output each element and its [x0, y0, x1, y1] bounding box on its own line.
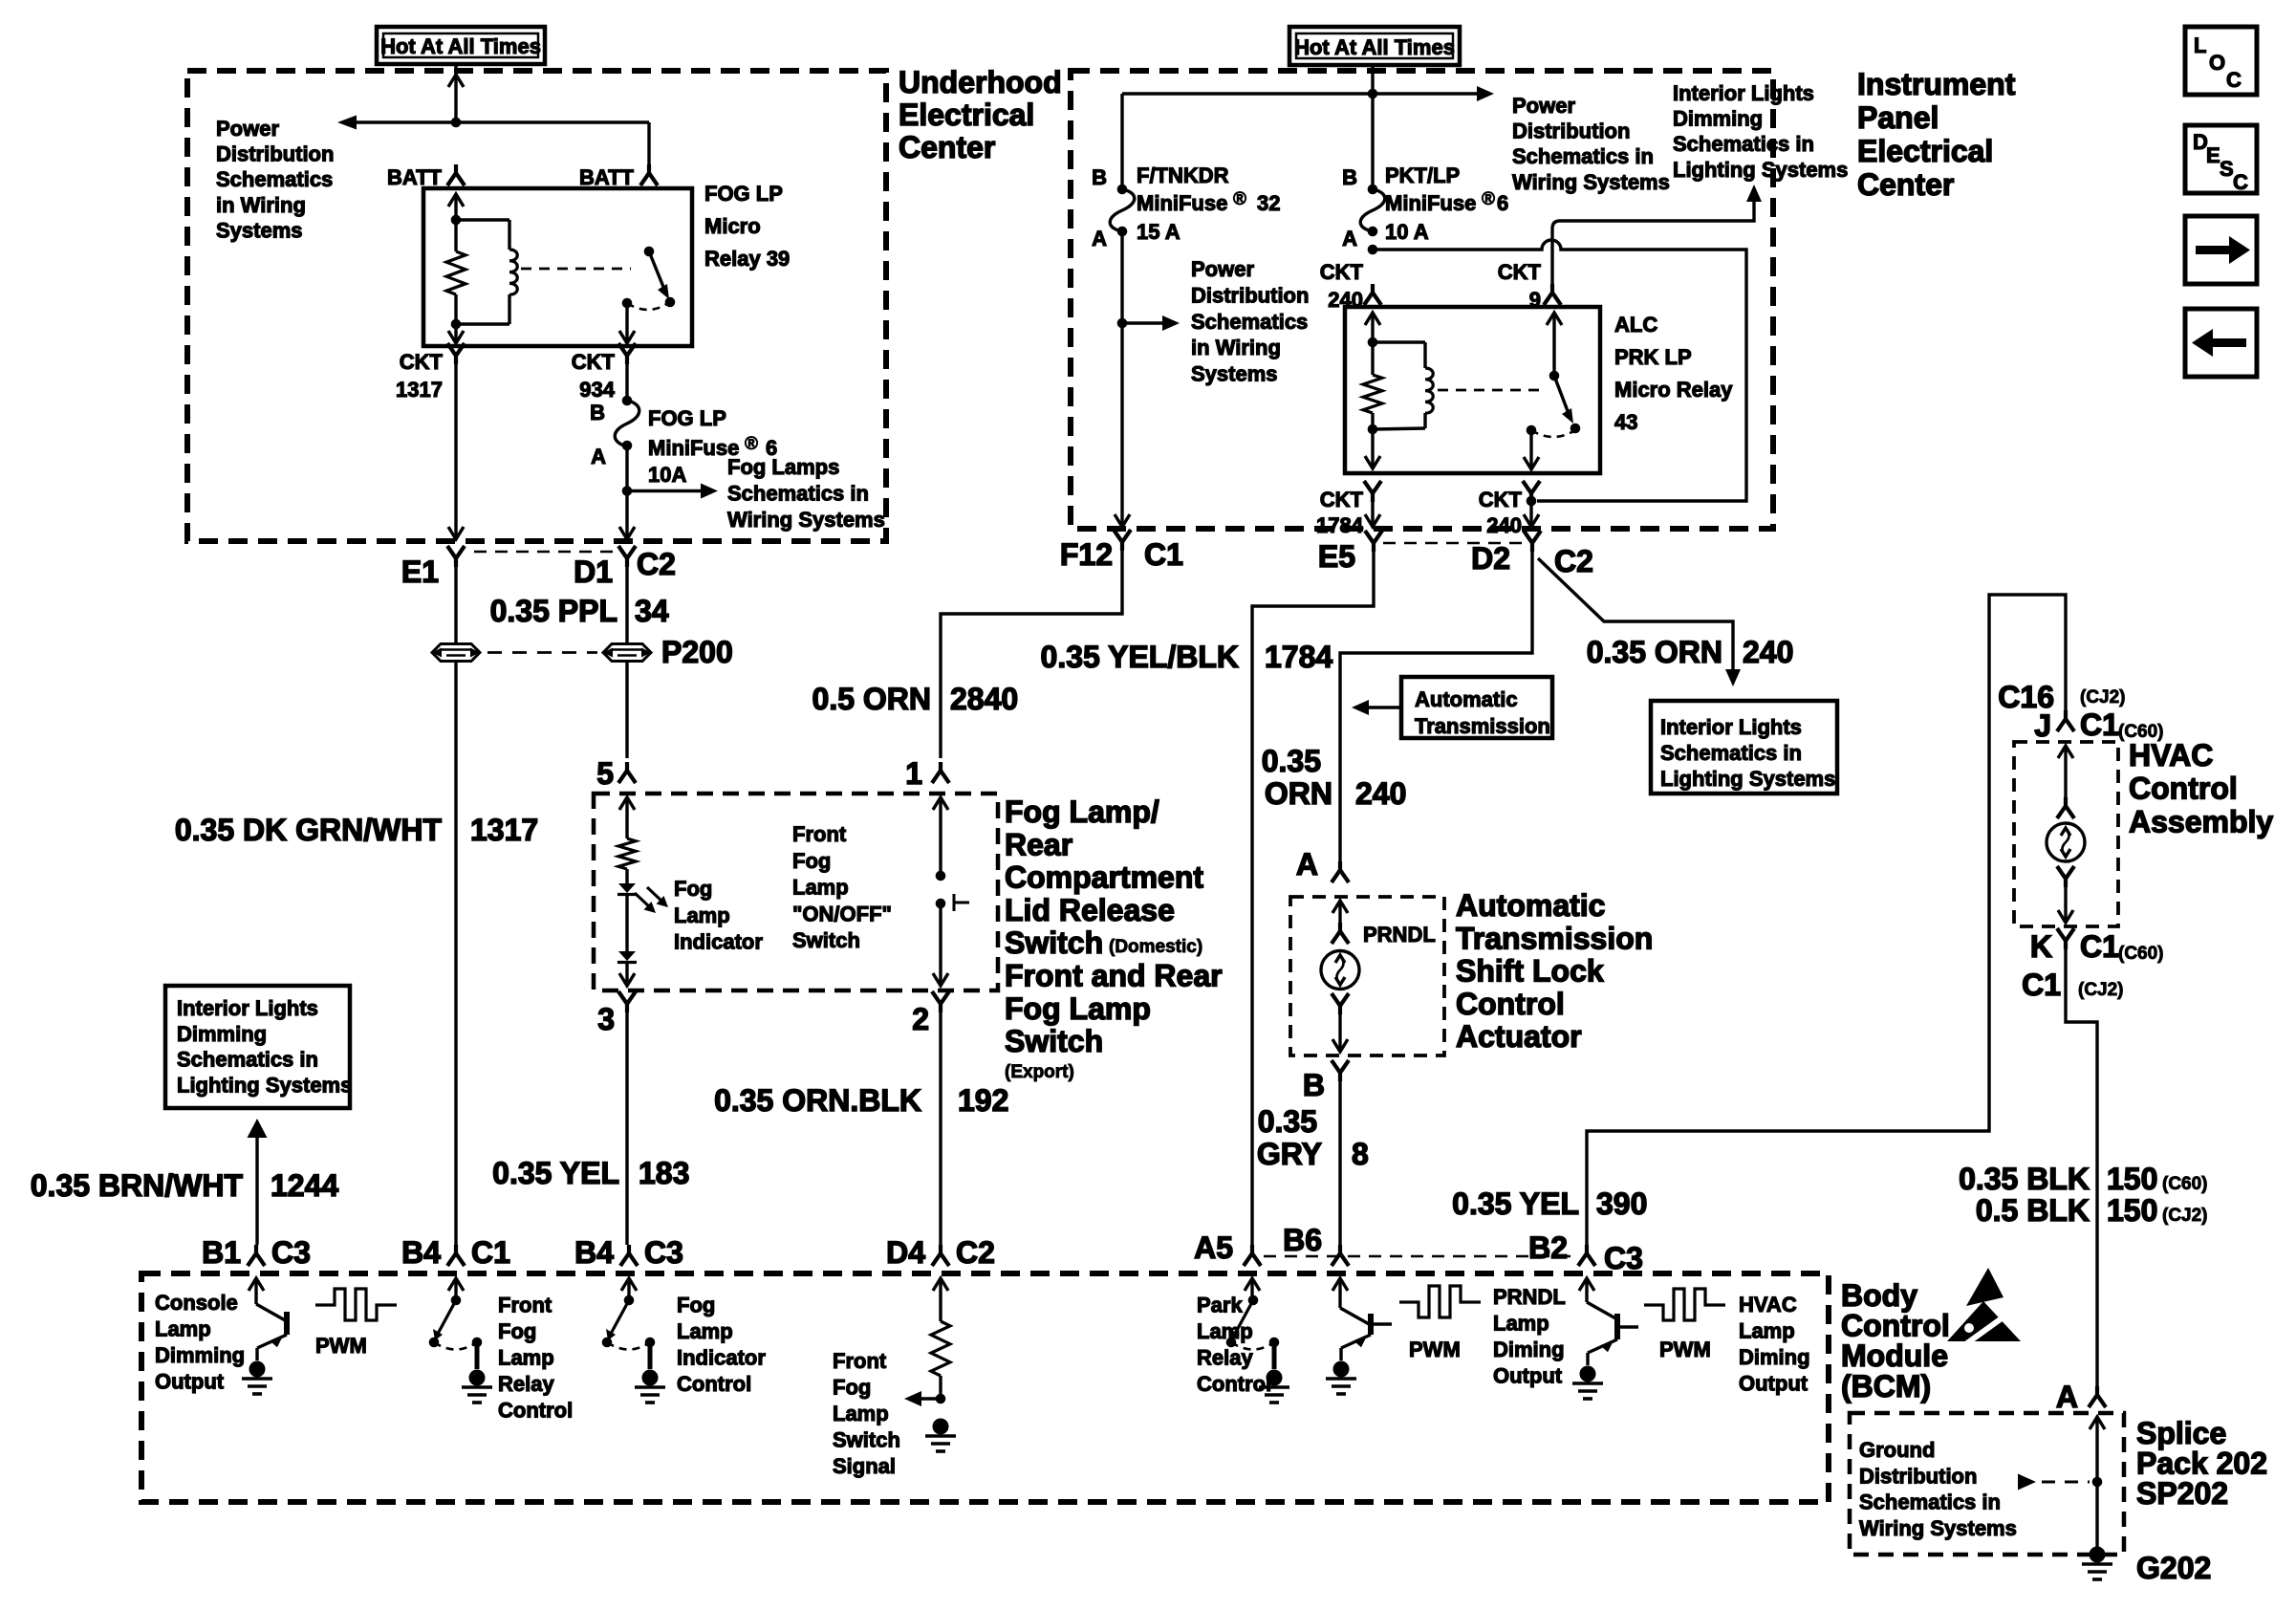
svg-text:Pack 202: Pack 202: [2136, 1447, 2267, 1481]
svg-text:Center: Center: [899, 130, 995, 164]
pass-through P200 (right): [603, 644, 651, 662]
svg-text:C: C: [2226, 68, 2242, 92]
svg-text:Schematics in: Schematics in: [727, 482, 869, 506]
svg-text:Fog: Fog: [674, 877, 712, 901]
svg-text:A: A: [2056, 1380, 2078, 1414]
svg-text:C: C: [2233, 170, 2248, 194]
svg-text:Switch: Switch: [792, 928, 860, 952]
lamp HVAC: [2047, 823, 2085, 861]
svg-text:Fog Lamps: Fog Lamps: [727, 455, 839, 479]
relay 39 coil-side pin arrow: [448, 194, 464, 207]
fog switch pin1 arrow: [933, 797, 948, 810]
svg-text:Assembly: Assembly: [2129, 804, 2273, 838]
svg-text:E5: E5: [1318, 539, 1355, 574]
svg-text:(CJ2): (CJ2): [2080, 687, 2126, 707]
wire from Hot box down: [1371, 65, 1374, 189]
svg-text:PWM: PWM: [315, 1334, 367, 1358]
fog lamp indicator pin arrow: [619, 797, 635, 810]
svg-text:A: A: [1342, 227, 1357, 250]
Underhood Electrical Center dashed box: [187, 71, 886, 541]
svg-text:FOG LP: FOG LP: [648, 406, 726, 430]
svg-text:0.5 ORN: 0.5 ORN: [812, 682, 931, 716]
svg-text:0.35 ORN.BLK: 0.35 ORN.BLK: [714, 1083, 921, 1118]
svg-text:C1: C1: [2022, 968, 2061, 1002]
svg-text:C2: C2: [637, 547, 676, 581]
svg-text:240: 240: [1743, 635, 1793, 669]
svg-text:Distribution: Distribution: [1859, 1464, 1977, 1488]
relay39 coil: [456, 218, 509, 221]
ESD warning symbol: [1966, 1268, 2004, 1306]
wire D2 to PRNDL actuator: [1340, 552, 1532, 863]
wire F12 to fog switch pin1: [941, 551, 1122, 758]
svg-text:Schematics: Schematics: [1191, 310, 1308, 334]
relay43 actuation dashed link: [1438, 389, 1541, 392]
svg-text:1784: 1784: [1265, 640, 1332, 674]
svg-text:10A: 10A: [648, 463, 686, 487]
svg-text:Front: Front: [792, 822, 847, 846]
svg-text:MiniFuse: MiniFuse: [1385, 191, 1476, 215]
P200 link dashed: [487, 651, 597, 654]
wire E1 to P200: [454, 567, 457, 643]
svg-text:Distribution: Distribution: [1512, 120, 1630, 143]
svg-text:"ON/OFF": "ON/OFF": [792, 902, 892, 925]
svg-text:Schematics in: Schematics in: [1859, 1490, 2001, 1514]
svg-text:PRNDL: PRNDL: [1493, 1285, 1566, 1309]
LED diode 1: [618, 883, 636, 893]
svg-text:B2: B2: [1528, 1230, 1568, 1265]
svg-text:Actuator: Actuator: [1456, 1019, 1582, 1054]
svg-text:B1: B1: [202, 1235, 241, 1270]
svg-text:Lamp: Lamp: [498, 1346, 554, 1370]
power label box "Hot At All Times" (left): [377, 27, 545, 64]
Instrument Panel Electrical Center dashed box: [1071, 71, 1773, 529]
svg-text:Distribution: Distribution: [1191, 283, 1309, 307]
svg-text:A5: A5: [1194, 1230, 1233, 1265]
relay43 coil pin arrow: [1365, 313, 1380, 325]
fog lamp indicator switch: [627, 1278, 630, 1300]
svg-text:C1: C1: [1144, 537, 1183, 572]
svg-text:Control: Control: [1841, 1309, 1950, 1343]
feed wire to F/TNKDR fuse: [1122, 92, 1373, 95]
svg-text:Schematics: Schematics: [216, 167, 333, 191]
wire K down to splice: [2066, 949, 2097, 1388]
svg-text:G202: G202: [2136, 1551, 2211, 1585]
relay43 switch common pin: [1552, 313, 1555, 376]
lamp PRNDL: [1321, 951, 1359, 990]
wire E5 to BCM A5: [1252, 552, 1374, 1245]
resistor relay39 internal: [454, 220, 457, 251]
svg-text:F/TNKDR: F/TNKDR: [1137, 163, 1229, 187]
console lamp transistor: [254, 1278, 257, 1304]
svg-text:C1: C1: [2080, 929, 2119, 964]
svg-text:GRY: GRY: [1257, 1137, 1322, 1171]
node CKT240 branch: [1368, 245, 1377, 254]
Fog Lamp switch dashed box: [594, 794, 998, 990]
wire pin3 to BCM: [625, 1012, 628, 1245]
svg-text:Relay: Relay: [1197, 1346, 1253, 1370]
wire B to BCM B6: [1338, 1081, 1341, 1245]
svg-text:Lighting Systems: Lighting Systems: [1660, 767, 1835, 791]
svg-text:O: O: [2209, 51, 2225, 75]
svg-text:MiniFuse: MiniFuse: [648, 436, 739, 460]
svg-text:Output: Output: [155, 1370, 225, 1394]
svg-text:Automatic: Automatic: [1456, 888, 1605, 923]
svg-text:C1: C1: [2080, 707, 2119, 742]
svg-text:Fog: Fog: [833, 1376, 871, 1400]
wire 1317 long down to BCM B4: [454, 662, 457, 1245]
svg-text:Schematics in: Schematics in: [177, 1048, 318, 1072]
node feed join: [1527, 496, 1536, 506]
svg-text:S: S: [2220, 157, 2234, 181]
svg-text:BATT: BATT: [579, 165, 635, 189]
svg-text:0.35 ORN: 0.35 ORN: [1587, 635, 1722, 669]
svg-text:0.5 BLK: 0.5 BLK: [1976, 1193, 2090, 1228]
svg-text:0.35 BRN/WHT: 0.35 BRN/WHT: [31, 1168, 244, 1203]
node power branch: [1368, 89, 1377, 98]
svg-text:CKT: CKT: [400, 350, 444, 374]
svg-text:A: A: [1296, 847, 1318, 881]
svg-text:B: B: [1092, 165, 1107, 189]
node: [1368, 424, 1377, 434]
node coil top: [451, 215, 461, 225]
svg-text:Front and Rear: Front and Rear: [1005, 959, 1223, 993]
svg-text:Rear: Rear: [1005, 827, 1072, 861]
svg-text:in Wiring: in Wiring: [1191, 336, 1281, 359]
svg-text:Signal: Signal: [833, 1454, 896, 1478]
svg-text:Lid Release: Lid Release: [1005, 893, 1175, 927]
svg-text:(Export): (Export): [1005, 1062, 1074, 1082]
Body Control Module dashed box: [141, 1273, 1829, 1502]
svg-text:(C60): (C60): [2162, 1174, 2208, 1194]
arrow from Automatic Transmission box: [1369, 706, 1401, 708]
svg-text:D2: D2: [1471, 541, 1510, 576]
node fog lamps branch: [622, 487, 632, 496]
svg-text:Front: Front: [498, 1294, 552, 1317]
HVAC pin arrow: [2058, 746, 2073, 758]
switch contacts: [936, 871, 945, 881]
nav box LOC: [2185, 27, 2257, 95]
svg-text:Lamp: Lamp: [674, 903, 730, 927]
wire from Hot At All Times into box: [454, 64, 457, 122]
svg-text:CKT: CKT: [1498, 260, 1542, 284]
svg-text:Fog Lamp: Fog Lamp: [1005, 991, 1151, 1026]
svg-text:2: 2: [912, 1002, 929, 1036]
svg-text:Panel: Panel: [1857, 100, 1939, 135]
svg-text:Distribution: Distribution: [216, 142, 334, 166]
svg-text:E1: E1: [401, 555, 439, 589]
relay39 switch: [644, 247, 654, 256]
svg-text:(Domestic): (Domestic): [1109, 937, 1202, 957]
svg-text:Diming: Diming: [1739, 1345, 1810, 1369]
svg-text:Instrument: Instrument: [1857, 67, 2016, 101]
svg-text:K: K: [2030, 929, 2052, 964]
svg-text:6: 6: [1497, 191, 1508, 215]
svg-text:®: ®: [745, 434, 758, 454]
svg-text:1317: 1317: [470, 813, 538, 847]
svg-text:1: 1: [905, 756, 922, 791]
resistor fog lamp indicator: [618, 838, 636, 869]
svg-text:Relay: Relay: [498, 1372, 554, 1396]
inner connector lower: [1332, 993, 1349, 1014]
svg-text:Electrical: Electrical: [899, 98, 1034, 132]
arrow to Power Distribution schematics: [1122, 321, 1162, 324]
svg-text:Output: Output: [1493, 1364, 1563, 1388]
connector line A5-B2: [1264, 1255, 1575, 1258]
svg-text:Transmission: Transmission: [1415, 714, 1550, 738]
relay43 pin out arrow: [1371, 429, 1374, 466]
svg-text:PWM: PWM: [1409, 1338, 1461, 1361]
svg-text:B: B: [590, 401, 605, 424]
wire below fuse: [625, 446, 628, 537]
svg-text:(CJ2): (CJ2): [2078, 980, 2124, 1000]
wire 183 from P200 to fog switch pin5: [625, 662, 628, 758]
svg-text:Dimming: Dimming: [1673, 107, 1763, 131]
svg-text:0.35 YEL: 0.35 YEL: [1452, 1186, 1579, 1221]
svg-text:Lamp: Lamp: [155, 1317, 211, 1341]
svg-text:1784: 1784: [1316, 513, 1364, 537]
nav box forward arrow: [2185, 216, 2257, 284]
wire D2 to interior lights arrow: [1538, 558, 1733, 669]
svg-text:in Wiring: in Wiring: [216, 193, 306, 217]
fuse FOG LP MiniFuse 6 10A: [622, 396, 632, 405]
svg-text:(BCM): (BCM): [1841, 1369, 1931, 1403]
connector line E5-D2: [1383, 542, 1522, 545]
node coil bottom: [451, 319, 461, 329]
svg-text:Center: Center: [1857, 167, 1954, 202]
svg-text:J: J: [2034, 708, 2051, 743]
svg-text:PRK LP: PRK LP: [1614, 345, 1692, 369]
svg-text:(CJ2): (CJ2): [2162, 1206, 2208, 1226]
PRNDL pin arrow: [1332, 901, 1348, 913]
LED diode 2: [618, 951, 636, 961]
svg-text:(C60): (C60): [2118, 944, 2164, 964]
svg-text:C3: C3: [271, 1235, 311, 1270]
relay43 coil: [1373, 340, 1425, 343]
svg-text:B4: B4: [574, 1235, 614, 1270]
splice branch arrow: [2018, 1474, 2036, 1490]
Automatic Transmission Shift Lock Control Actuator dashed box: [1290, 897, 1444, 1055]
nav box back arrow: [2185, 309, 2257, 377]
pass-through P200 (left): [432, 644, 480, 662]
svg-text:Lamp: Lamp: [1493, 1312, 1549, 1336]
power label box "Hot At All Times" (right): [1289, 27, 1460, 65]
relay U: FOG LP Micro Relay 39 box: [423, 188, 692, 346]
svg-text:Lighting Systems: Lighting Systems: [1673, 158, 1848, 182]
svg-text:ORN: ORN: [1265, 776, 1332, 811]
svg-text:1317: 1317: [396, 378, 443, 402]
svg-text:Switch: Switch: [1005, 925, 1103, 960]
svg-text:A: A: [591, 445, 606, 468]
svg-text:B6: B6: [1283, 1223, 1322, 1257]
HVAC dimming transistor: [1585, 1278, 1588, 1302]
svg-text:C2: C2: [956, 1235, 995, 1270]
svg-text:Console: Console: [155, 1291, 238, 1315]
svg-text:192: 192: [958, 1083, 1008, 1118]
svg-text:BATT: BATT: [387, 165, 443, 189]
svg-text:Compartment: Compartment: [1005, 860, 1203, 895]
svg-text:A: A: [1092, 227, 1107, 250]
svg-text:Indicator: Indicator: [674, 930, 763, 954]
svg-text:Fog: Fog: [792, 849, 831, 873]
svg-text:Indicator: Indicator: [677, 1346, 766, 1370]
svg-text:Micro: Micro: [704, 214, 761, 238]
svg-text:Interior Lights: Interior Lights: [1673, 81, 1814, 105]
callout box Interior Lights Dimming Schematics: [165, 986, 350, 1108]
svg-text:L: L: [2194, 33, 2206, 57]
BCM pin arrows: [249, 1278, 264, 1291]
svg-text:F12: F12: [1060, 537, 1113, 572]
svg-text:150: 150: [2107, 1193, 2157, 1228]
svg-text:®: ®: [1233, 189, 1246, 209]
svg-text:390: 390: [1596, 1186, 1647, 1221]
svg-text:Micro Relay: Micro Relay: [1614, 378, 1733, 402]
feed wire with hop to interior lights circuit: [1373, 240, 1746, 501]
svg-text:0.35: 0.35: [1258, 1104, 1317, 1139]
svg-text:Lamp: Lamp: [1197, 1319, 1253, 1343]
svg-text:Fog: Fog: [498, 1319, 536, 1343]
svg-text:C3: C3: [644, 1235, 683, 1270]
relay39 actuation dashed link: [521, 268, 631, 271]
nav box DESC: [2185, 125, 2257, 193]
PRNDL dimming transistor: [1338, 1278, 1341, 1308]
svg-text:B: B: [1342, 165, 1357, 189]
relay43 switch: [1549, 371, 1559, 381]
svg-text:Control: Control: [677, 1372, 751, 1396]
svg-text:150: 150: [2107, 1162, 2157, 1196]
svg-text:Shift Lock: Shift Lock: [1456, 954, 1604, 989]
svg-text:Wiring Systems: Wiring Systems: [1859, 1516, 2017, 1540]
svg-text:FOG LP: FOG LP: [704, 182, 783, 206]
svg-text:Dimming: Dimming: [155, 1343, 245, 1367]
svg-text:934: 934: [579, 378, 615, 402]
svg-text:®: ®: [1482, 189, 1495, 209]
svg-text:B: B: [1303, 1068, 1325, 1102]
svg-text:C3: C3: [1604, 1241, 1643, 1275]
svg-text:Systems: Systems: [1191, 362, 1278, 386]
svg-text:0.35 YEL: 0.35 YEL: [492, 1156, 619, 1190]
arrow to Fog Lamps schematics: [627, 490, 701, 492]
svg-text:Dimming: Dimming: [177, 1022, 267, 1046]
PWM waveform 2: [1399, 1286, 1481, 1317]
svg-text:CKT: CKT: [572, 350, 616, 374]
svg-text:Schematics in: Schematics in: [1512, 144, 1654, 168]
front fog lamp switch signal resistor: [939, 1278, 942, 1321]
svg-text:D1: D1: [574, 555, 613, 589]
park lamp relay switch: [1250, 1278, 1253, 1300]
svg-text:Switch: Switch: [1005, 1024, 1103, 1058]
svg-text:HVAC: HVAC: [1739, 1293, 1797, 1316]
resistor relay43: [1371, 342, 1374, 375]
svg-text:Switch: Switch: [833, 1428, 900, 1452]
svg-text:Power: Power: [216, 117, 279, 141]
CKT 9 wire with arrow to Lighting Systems: [1552, 192, 1754, 295]
relay U: ALC PRK LP Micro Relay 43 box: [1345, 307, 1600, 473]
svg-text:10 A: 10 A: [1385, 220, 1429, 244]
wire F12 down: [1120, 231, 1123, 524]
wire down to BATT 2: [647, 122, 650, 164]
svg-text:Lamp: Lamp: [833, 1402, 889, 1425]
svg-text:Interior Lights: Interior Lights: [1660, 715, 1802, 739]
svg-text:2840: 2840: [950, 682, 1018, 716]
svg-text:B4: B4: [401, 1235, 441, 1270]
wire to Power Distribution (left arrow): [354, 120, 649, 123]
svg-text:Splice: Splice: [2136, 1416, 2226, 1450]
inner connector: [1332, 923, 1349, 944]
svg-text:CKT: CKT: [1320, 488, 1364, 511]
svg-text:ALC: ALC: [1614, 313, 1657, 337]
svg-text:Ground: Ground: [1859, 1438, 1935, 1462]
node power dist branch: [1117, 318, 1127, 328]
svg-text:PKT/LP: PKT/LP: [1385, 163, 1460, 187]
wire BCM B2 to HVAC C16: [1587, 595, 2066, 1246]
svg-text:CKT: CKT: [1320, 260, 1364, 284]
svg-text:0.35 PPL: 0.35 PPL: [490, 594, 617, 628]
svg-text:Fog Lamp/: Fog Lamp/: [1005, 794, 1159, 829]
splice pin arrow: [2090, 1417, 2105, 1429]
wire pin2 to BCM D4: [939, 1012, 942, 1245]
svg-text:Hot At All Times: Hot At All Times: [1294, 35, 1455, 59]
arrow wire up to interior lights box: [248, 1119, 268, 1138]
svg-text:Front: Front: [833, 1349, 887, 1373]
svg-text:CKT: CKT: [1479, 488, 1523, 511]
svg-text:SP202: SP202: [2136, 1476, 2228, 1511]
svg-text:Hot At All Times: Hot At All Times: [380, 34, 541, 58]
svg-text:HVAC: HVAC: [2129, 738, 2213, 772]
svg-text:Module: Module: [1841, 1338, 1948, 1373]
svg-text:Interior Lights: Interior Lights: [177, 996, 318, 1020]
front fog lamp relay switch: [454, 1278, 457, 1300]
svg-text:240: 240: [1355, 776, 1406, 811]
svg-text:183: 183: [639, 1156, 689, 1190]
svg-text:Power: Power: [1512, 94, 1575, 118]
ground G202: [2090, 1547, 2105, 1562]
svg-text:8: 8: [1352, 1137, 1369, 1171]
svg-text:Lamp: Lamp: [1739, 1319, 1795, 1343]
node: [1368, 337, 1377, 347]
wire D1 to P200: [625, 567, 628, 643]
svg-text:0.35: 0.35: [1262, 744, 1321, 778]
svg-text:Lamp: Lamp: [677, 1319, 733, 1343]
push button symbol: [953, 894, 956, 911]
svg-text:D4: D4: [886, 1235, 925, 1270]
HVAC Control Assembly dashed box: [2014, 742, 2118, 926]
svg-text:Transmission: Transmission: [1456, 921, 1653, 955]
node junction at BATT feed: [451, 118, 461, 127]
svg-text:Control: Control: [2129, 772, 2238, 806]
svg-text:Automatic: Automatic: [1415, 687, 1518, 711]
svg-text:PRNDL: PRNDL: [1363, 923, 1436, 946]
svg-text:Wiring Systems: Wiring Systems: [727, 508, 885, 532]
connector line E1-D1: [474, 551, 617, 554]
svg-text:E: E: [2206, 143, 2220, 167]
svg-text:Lighting Systems: Lighting Systems: [177, 1073, 352, 1097]
svg-text:Diming: Diming: [1493, 1338, 1565, 1361]
svg-text:Control: Control: [1197, 1372, 1271, 1396]
Splice Pack dashed box: [1850, 1413, 2124, 1555]
svg-text:MiniFuse: MiniFuse: [1137, 191, 1227, 215]
arrow to Power Distribution (right): [1373, 92, 1477, 95]
svg-text:0.35 DK GRN/WHT: 0.35 DK GRN/WHT: [175, 813, 443, 847]
svg-text:Underhood: Underhood: [899, 65, 1062, 99]
svg-text:Schematics in: Schematics in: [1673, 132, 1814, 156]
svg-text:1244: 1244: [271, 1168, 338, 1203]
svg-text:0.35 YEL/BLK: 0.35 YEL/BLK: [1041, 640, 1239, 674]
svg-text:C2: C2: [1554, 544, 1593, 578]
svg-text:Park: Park: [1197, 1294, 1243, 1317]
wire to pin 3: [625, 962, 628, 983]
svg-text:Control: Control: [1456, 987, 1565, 1021]
svg-text:240: 240: [1486, 513, 1522, 537]
